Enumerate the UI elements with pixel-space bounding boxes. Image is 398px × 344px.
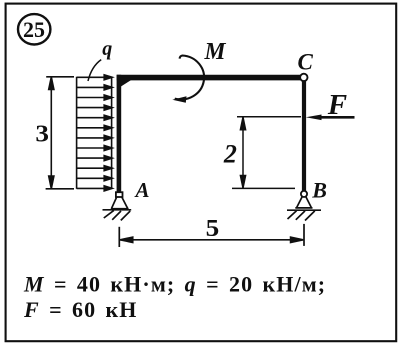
moment M arrowhead: [172, 96, 186, 102]
svg-text:F = 60 кН: F = 60 кН: [23, 297, 138, 322]
moment M arc: [175, 56, 204, 100]
dimension 2: ticks and vertical line: [232, 117, 301, 189]
support at B: ground line: [287, 209, 321, 211]
problem number badge 25: [18, 14, 50, 44]
svg-text:q: q: [102, 38, 112, 60]
support at A: hatching: [104, 210, 130, 220]
svg-text:C: C: [298, 50, 314, 75]
svg-text:F: F: [327, 89, 347, 121]
label q leader line: [88, 60, 101, 81]
svg-text:B: B: [311, 178, 327, 203]
support at A: ground line: [103, 209, 132, 211]
svg-text:M: M: [204, 39, 228, 65]
support at B: triangle: [295, 197, 312, 208]
hinge circle at C: [300, 74, 307, 81]
svg-text:2: 2: [223, 140, 237, 169]
support at A: triangle: [111, 197, 129, 209]
frame beam (horizontal member): [117, 75, 300, 81]
svg-text:25: 25: [23, 17, 45, 42]
frame column at B (right vertical member): [302, 81, 306, 191]
support at B: hatching: [288, 211, 315, 221]
svg-text:5: 5: [206, 215, 220, 242]
dimension 5: ticks, line, arrows: [119, 224, 304, 247]
corner fillet at frame top-left: [117, 80, 132, 90]
support at A: hinge square: [116, 192, 123, 197]
svg-text:M = 40 кН·м; q = 20 кН/м;: M = 40 кН·м; q = 20 кН/м;: [23, 271, 326, 296]
dimension 3: vertical line: [46, 77, 74, 189]
distributed load q: box: [77, 77, 112, 189]
svg-text:3: 3: [35, 122, 49, 148]
distributed load q: arrows: [77, 75, 113, 191]
svg-text:A: A: [134, 178, 150, 202]
frame column at A (left vertical member): [117, 75, 122, 193]
force F arrow: [306, 115, 355, 121]
support at B: pin circle: [301, 191, 307, 197]
